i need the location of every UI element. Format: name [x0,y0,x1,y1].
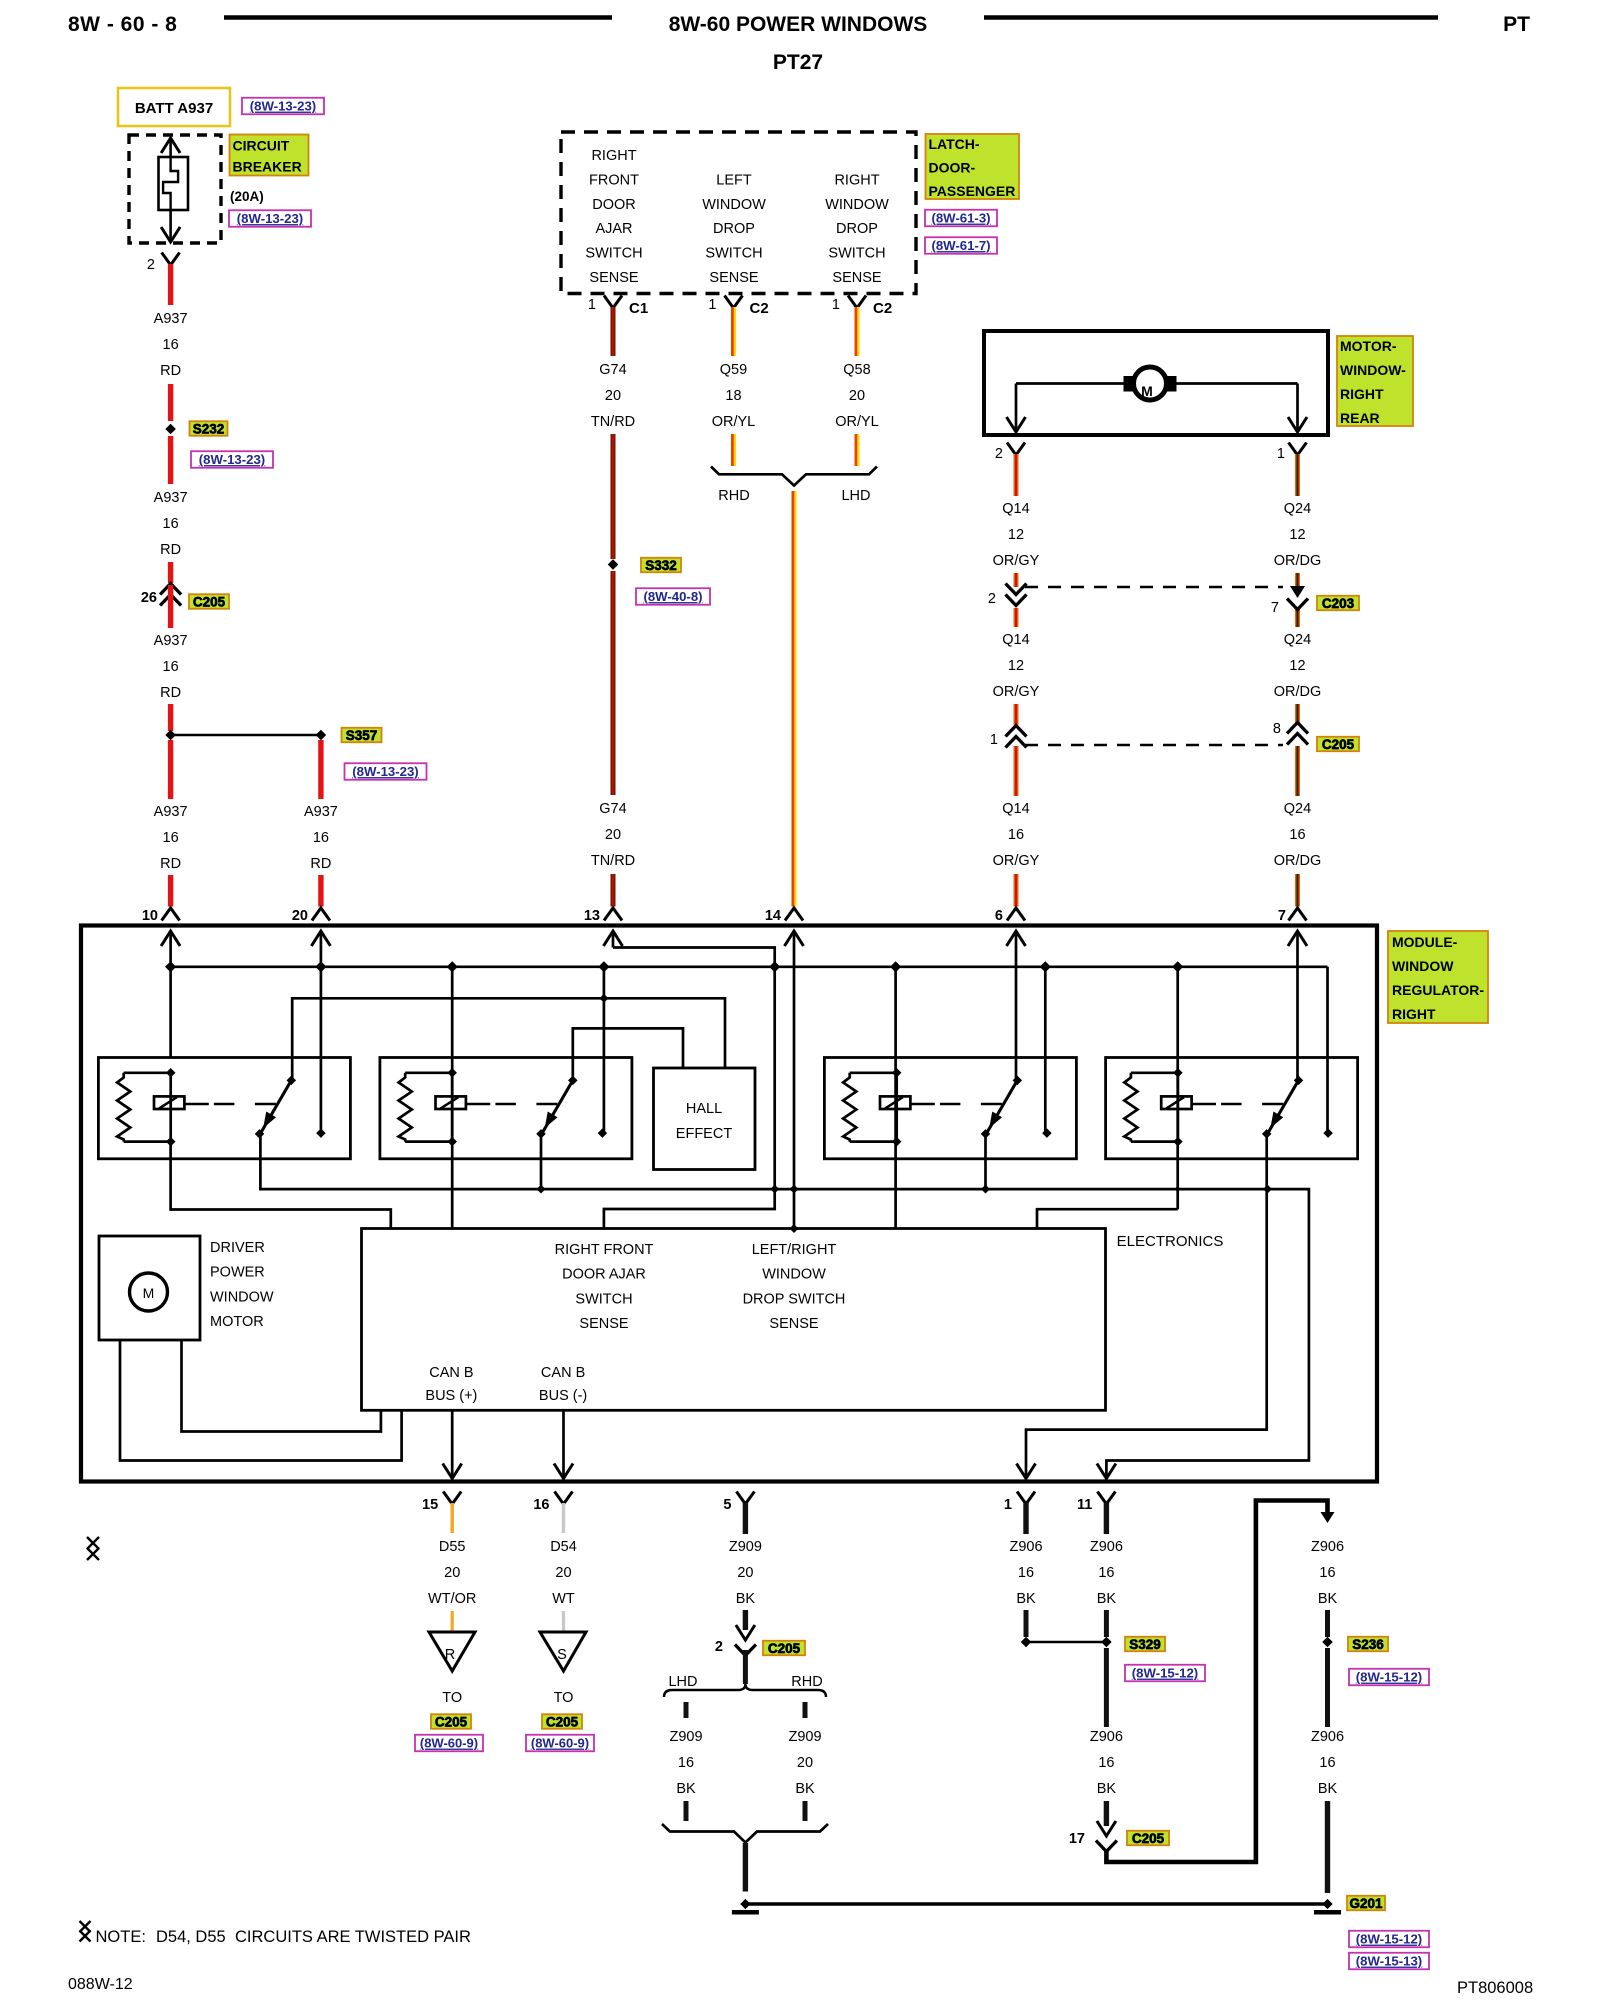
svg-text:TN/RD: TN/RD [591,414,635,430]
svg-text:20: 20 [849,388,865,404]
svg-text:WINDOW: WINDOW [1392,958,1454,974]
svg-text:RD: RD [160,542,181,558]
svg-text:A937: A937 [154,633,188,649]
svg-text:BATT A937: BATT A937 [135,100,213,117]
svg-text:Z909: Z909 [729,1539,762,1555]
svg-text:D54: D54 [550,1539,577,1555]
svg-text:OR/DG: OR/DG [1274,853,1322,869]
svg-text:DROP SWITCH: DROP SWITCH [743,1291,846,1307]
svg-text:TN/RD: TN/RD [591,853,635,869]
svg-text:M: M [1141,383,1153,399]
svg-text:16: 16 [1008,827,1024,843]
svg-text:SENSE: SENSE [579,1316,628,1332]
svg-text:SWITCH: SWITCH [575,1291,632,1307]
svg-text:16: 16 [1018,1565,1034,1581]
svg-text:(8W-15-12): (8W-15-12) [1132,1666,1198,1681]
svg-text:7: 7 [1271,600,1279,616]
svg-text:5: 5 [723,1497,731,1513]
svg-text:DOOR AJAR: DOOR AJAR [562,1267,646,1283]
svg-text:(8W-13-23): (8W-13-23) [352,764,418,779]
svg-text:Q59: Q59 [720,362,747,378]
svg-text:20: 20 [605,827,621,843]
svg-text:R: R [445,1647,455,1663]
svg-text:1: 1 [990,732,998,748]
svg-text:1: 1 [708,297,716,313]
svg-text:DRIVER: DRIVER [210,1240,265,1256]
svg-text:16: 16 [1098,1755,1114,1771]
svg-text:REAR: REAR [1340,410,1380,426]
svg-text:C2: C2 [873,300,892,317]
svg-text:WINDOW-: WINDOW- [1340,362,1406,378]
svg-text:SENSE: SENSE [769,1316,818,1332]
svg-text:S232: S232 [193,421,225,436]
svg-text:(8W-15-12): (8W-15-12) [1356,1670,1422,1685]
svg-text:Q58: Q58 [843,362,870,378]
svg-text:C1: C1 [629,300,648,317]
svg-text:CAN B: CAN B [541,1365,585,1381]
svg-text:2: 2 [988,591,996,607]
svg-text:C205: C205 [768,1641,801,1656]
svg-text:SENSE: SENSE [832,270,881,286]
svg-text:FRONT: FRONT [589,172,639,188]
svg-text:S236: S236 [1352,1637,1384,1652]
svg-text:26: 26 [141,590,157,606]
svg-text:20: 20 [555,1565,571,1581]
svg-text:AJAR: AJAR [595,221,632,237]
svg-text:(8W-61-7): (8W-61-7) [931,238,990,253]
svg-text:RHD: RHD [791,1674,822,1690]
svg-text:BK: BK [1097,1591,1117,1607]
svg-text:20: 20 [292,908,308,924]
svg-text:(8W-13-23): (8W-13-23) [199,452,265,467]
svg-text:CIRCUIT: CIRCUIT [233,138,290,154]
svg-text:1: 1 [832,297,840,313]
svg-text:16: 16 [678,1755,694,1771]
svg-text:C205: C205 [1132,1831,1165,1846]
svg-text:LHD: LHD [668,1674,697,1690]
svg-text:8: 8 [1273,721,1281,737]
svg-text:BK: BK [1097,1781,1117,1797]
svg-text:LHD: LHD [841,488,870,504]
svg-text:PT27: PT27 [773,51,823,74]
svg-text:WT: WT [552,1591,575,1607]
svg-text:C205: C205 [1322,737,1355,752]
svg-text:WINDOW: WINDOW [762,1267,826,1283]
svg-text:WINDOW: WINDOW [210,1289,274,1305]
svg-text:12: 12 [1008,527,1024,543]
svg-text:(8W-15-13): (8W-15-13) [1356,1954,1422,1969]
svg-text:MOTOR-: MOTOR- [1340,338,1397,354]
svg-text:12: 12 [1008,658,1024,674]
svg-text:CIRCUITS ARE TWISTED PAIR: CIRCUITS ARE TWISTED PAIR [235,1928,471,1946]
svg-text:WINDOW: WINDOW [702,197,766,213]
svg-text:20: 20 [444,1565,460,1581]
svg-text:LEFT/RIGHT: LEFT/RIGHT [752,1242,837,1258]
svg-text:G74: G74 [599,801,626,817]
svg-text:17: 17 [1069,1831,1085,1847]
svg-text:2: 2 [715,1639,723,1655]
svg-text:RD: RD [160,685,181,701]
svg-text:Q14: Q14 [1002,801,1029,817]
svg-text:A937: A937 [304,804,338,820]
svg-text:1: 1 [588,297,596,313]
svg-text:BK: BK [1318,1591,1338,1607]
svg-text:SWITCH: SWITCH [828,246,885,262]
svg-text:(20A): (20A) [230,189,264,204]
svg-text:RIGHT: RIGHT [1392,1006,1436,1022]
svg-text:SENSE: SENSE [589,270,638,286]
svg-text:12: 12 [1289,527,1305,543]
svg-text:088W-12: 088W-12 [68,1976,133,1993]
svg-text:Q24: Q24 [1284,632,1311,648]
svg-text:S: S [557,1647,567,1663]
svg-text:RIGHT FRONT: RIGHT FRONT [555,1242,654,1258]
svg-text:S357: S357 [346,728,378,743]
svg-text:(8W-13-23): (8W-13-23) [250,99,316,114]
svg-text:1: 1 [1277,446,1285,462]
svg-text:D55: D55 [439,1539,466,1555]
svg-text:C205: C205 [435,1714,468,1729]
svg-text:OR/GY: OR/GY [993,553,1040,569]
svg-text:M: M [143,1285,155,1301]
svg-text:C2: C2 [750,300,769,317]
svg-text:8W - 60 - 8: 8W - 60 - 8 [68,13,177,36]
svg-text:12: 12 [1289,658,1305,674]
svg-text:D54, D55: D54, D55 [156,1928,226,1946]
svg-text:OR/YL: OR/YL [835,414,879,430]
svg-text:RIGHT: RIGHT [1340,386,1384,402]
svg-text:BK: BK [736,1591,756,1607]
svg-text:Z909: Z909 [788,1729,821,1745]
svg-text:MODULE-: MODULE- [1392,934,1458,950]
svg-text:LEFT: LEFT [716,172,752,188]
svg-text:14: 14 [765,908,781,924]
svg-text:A937: A937 [154,490,188,506]
svg-text:PASSENGER: PASSENGER [929,183,1016,199]
svg-text:Q24: Q24 [1284,801,1311,817]
svg-text:PT806008: PT806008 [1457,1979,1533,1997]
svg-text:15: 15 [422,1497,438,1513]
svg-text:WINDOW: WINDOW [825,197,889,213]
svg-text:BK: BK [676,1781,696,1797]
svg-text:16: 16 [1319,1565,1335,1581]
svg-text:BUS (-): BUS (-) [539,1388,587,1404]
svg-text:11: 11 [1077,1497,1092,1513]
svg-text:DOOR-: DOOR- [929,160,976,176]
svg-text:NOTE:: NOTE: [96,1928,146,1946]
svg-text:Z906: Z906 [1009,1539,1042,1555]
svg-text:RIGHT: RIGHT [834,172,879,188]
svg-text:OR/DG: OR/DG [1274,553,1322,569]
svg-text:DOOR: DOOR [592,197,636,213]
svg-text:OR/GY: OR/GY [993,684,1040,700]
svg-text:C205: C205 [193,594,226,609]
svg-text:RD: RD [160,856,181,872]
svg-text:Q24: Q24 [1284,501,1311,517]
svg-text:A937: A937 [154,311,188,327]
svg-text:16: 16 [1319,1755,1335,1771]
svg-text:RHD: RHD [718,488,749,504]
svg-text:LATCH-: LATCH- [929,136,980,152]
svg-text:SWITCH: SWITCH [585,246,642,262]
svg-text:RD: RD [310,856,331,872]
svg-text:2: 2 [147,257,155,273]
svg-text:16: 16 [313,830,329,846]
svg-text:1: 1 [1004,1497,1012,1513]
svg-text:MOTOR: MOTOR [210,1314,264,1330]
svg-text:OR/GY: OR/GY [993,853,1040,869]
svg-text:Q14: Q14 [1002,632,1029,648]
svg-text:G201: G201 [1349,1896,1383,1911]
svg-text:8W-60 POWER WINDOWS: 8W-60 POWER WINDOWS [669,13,928,36]
svg-text:16: 16 [533,1497,549,1513]
svg-text:16: 16 [1289,827,1305,843]
svg-text:S329: S329 [1129,1637,1161,1652]
svg-text:(8W-60-9): (8W-60-9) [420,1736,478,1751]
svg-text:16: 16 [163,659,179,675]
svg-text:16: 16 [163,830,179,846]
svg-text:BREAKER: BREAKER [233,159,302,175]
svg-text:Z906: Z906 [1311,1729,1344,1745]
svg-text:S332: S332 [645,558,677,573]
svg-text:ELECTRONICS: ELECTRONICS [1117,1233,1224,1250]
svg-text:TO: TO [554,1690,574,1706]
svg-text:16: 16 [163,337,179,353]
svg-text:Q14: Q14 [1002,501,1029,517]
svg-text:16: 16 [163,516,179,532]
svg-text:SENSE: SENSE [709,270,758,286]
svg-text:20: 20 [605,388,621,404]
svg-text:RIGHT: RIGHT [591,148,636,164]
svg-text:(8W-40-8): (8W-40-8) [643,589,702,604]
svg-text:BUS (+): BUS (+) [425,1388,477,1404]
svg-text:Z906: Z906 [1090,1729,1123,1745]
svg-text:13: 13 [584,908,600,924]
svg-text:(8W-15-12): (8W-15-12) [1356,1932,1422,1947]
svg-text:2: 2 [995,446,1003,462]
svg-text:EFFECT: EFFECT [676,1126,733,1142]
svg-text:(8W-13-23): (8W-13-23) [237,211,303,226]
svg-text:Z906: Z906 [1090,1539,1123,1555]
svg-text:HALL: HALL [686,1101,722,1117]
svg-text:G74: G74 [599,362,626,378]
svg-text:6: 6 [995,908,1003,924]
svg-text:WT/OR: WT/OR [428,1591,476,1607]
svg-text:RD: RD [160,363,181,379]
svg-text:TO: TO [442,1690,462,1706]
svg-text:Z906: Z906 [1311,1539,1344,1555]
svg-text:POWER: POWER [210,1265,265,1281]
svg-text:BK: BK [795,1781,815,1797]
svg-text:10: 10 [142,908,158,924]
svg-text:BK: BK [1016,1591,1036,1607]
svg-text:20: 20 [737,1565,753,1581]
svg-text:OR/YL: OR/YL [712,414,756,430]
svg-text:16: 16 [1098,1565,1114,1581]
svg-text:7: 7 [1278,908,1286,924]
svg-text:DROP: DROP [713,221,755,237]
svg-text:20: 20 [797,1755,813,1771]
svg-text:A937: A937 [154,804,188,820]
svg-text:C205: C205 [546,1714,579,1729]
svg-text:(8W-60-9): (8W-60-9) [531,1736,589,1751]
svg-text:18: 18 [725,388,741,404]
svg-text:(8W-61-3): (8W-61-3) [931,211,990,226]
svg-text:PT: PT [1503,13,1530,36]
svg-text:Z909: Z909 [669,1729,702,1745]
svg-text:REGULATOR-: REGULATOR- [1392,982,1484,998]
svg-text:OR/DG: OR/DG [1274,684,1322,700]
svg-text:CAN B: CAN B [429,1365,473,1381]
svg-text:DROP: DROP [836,221,878,237]
svg-text:C203: C203 [1322,596,1355,611]
svg-text:BK: BK [1318,1781,1338,1797]
svg-text:SWITCH: SWITCH [705,246,762,262]
